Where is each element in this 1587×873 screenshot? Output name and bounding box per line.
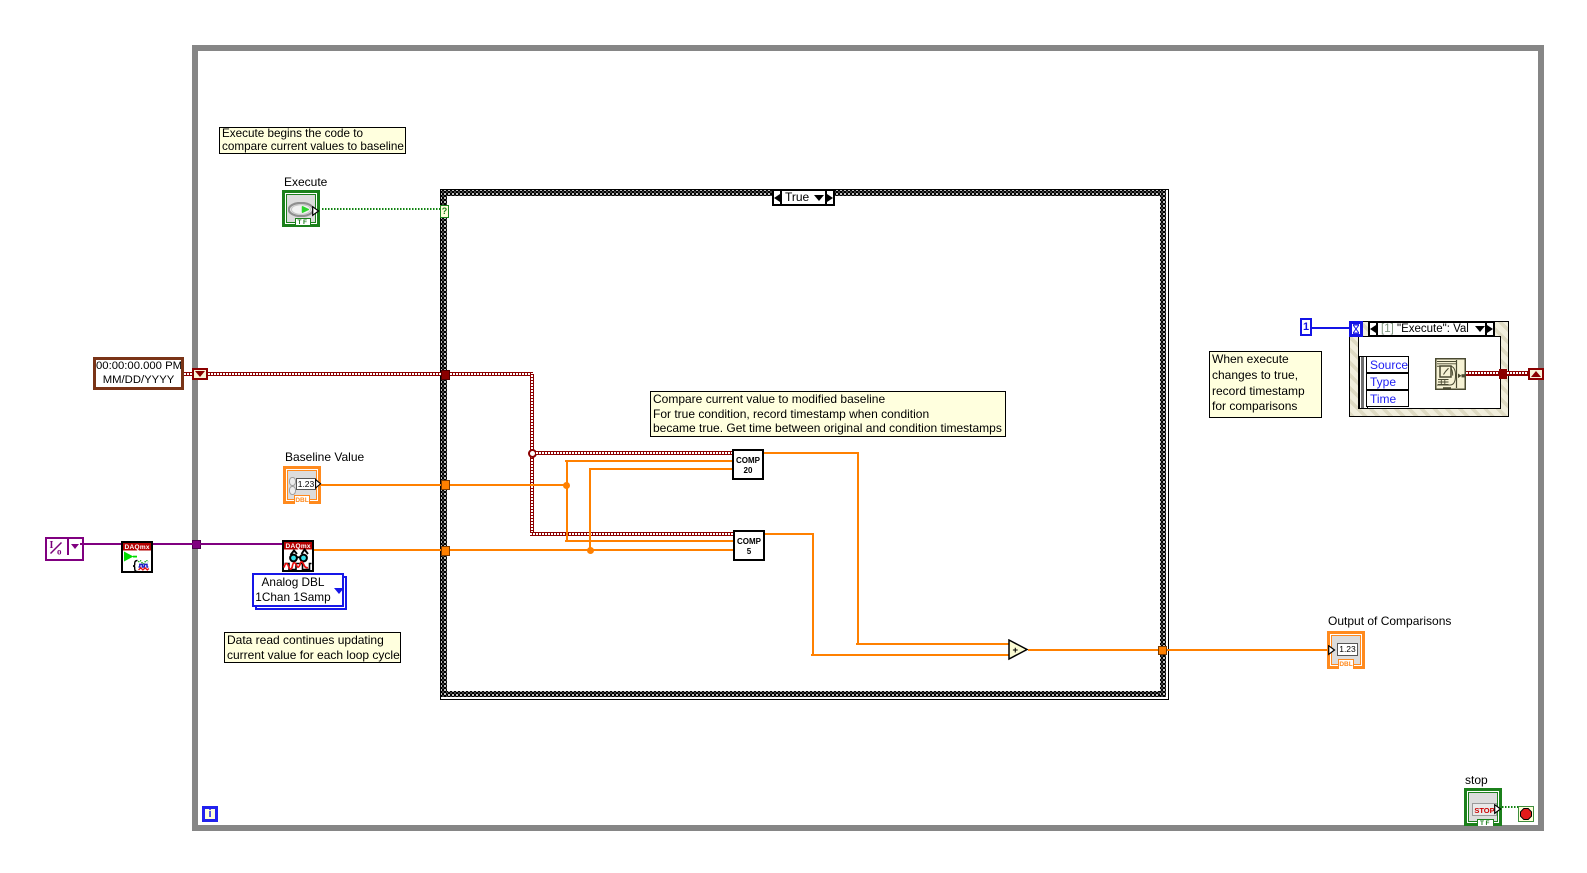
maroon junction circle [528,449,537,458]
current vertical up [589,469,591,549]
COMP20 output wire [764,452,858,454]
current value junction dot [587,547,594,554]
event structure frame [1349,321,1509,417]
maroon branch to COMP 20 [536,451,732,455]
event data: Time [1366,390,1409,407]
label Baseline Value [285,450,364,464]
purple wire to DAQmx read [153,543,282,545]
current value wire inside [450,549,733,551]
right shift register [1528,368,1544,380]
iteration terminal i [202,806,218,822]
event selector [1368,321,1495,337]
maroon wire from icon to event tunnel [1466,371,1499,376]
baseline value numeric control [283,466,321,504]
case selector True [772,189,835,206]
timestamp constant [93,357,184,390]
svg-text:DAQmx: DAQmx [125,544,150,551]
while loop border right [1538,45,1544,831]
maroon bottom branch to COMP 5 [530,532,733,536]
blue constant 1 [1300,318,1312,336]
orange tunnel output [1158,646,1167,655]
loop condition terminal [1518,806,1534,822]
event timeout hourglass terminal [1349,321,1363,337]
wire baseline to case [321,484,441,486]
purple tunnel on loop border [192,540,201,549]
COMP 5 subVI [733,530,765,561]
I/O constant [45,537,84,561]
DAQmx read icon [282,540,314,572]
while loop border left [192,45,198,831]
current to COMP20 [589,468,732,470]
purple wire I/O to DAQmx start [80,543,121,545]
orange tunnel current value [441,546,450,556]
COMP 20 subVI [732,449,764,480]
baseline to COMP5 [565,540,733,542]
comment: when execute changes [1209,351,1322,418]
left shift register [192,368,208,380]
baseline vertical up [566,461,568,484]
baseline vertical down [566,486,568,542]
event data: Source [1366,356,1409,373]
case structure frame [440,189,1169,700]
event structure inner area [1358,336,1501,409]
baseline junction dot [563,482,570,489]
execute boolean control [282,190,320,227]
label Execute [284,175,327,189]
svg-text:o: o [57,547,62,556]
baseline to COMP20 [565,460,732,462]
maroon tunnel on case border [441,370,450,380]
wire left SR to case tunnel (timestamp) [208,372,441,376]
maroon tunnel on event border [1499,369,1507,379]
while loop border top [192,45,1544,51]
orange tunnel baseline [441,480,450,490]
event data node [1359,356,1368,409]
wire baseline inside [450,484,566,486]
blue wire to event structure [1311,327,1349,329]
Analog DBL dropdown shadow [255,576,347,610]
comment: compare current value [650,391,1006,437]
add output wire [1028,649,1158,651]
stop wire dotted green [1502,806,1518,808]
comment: data read continues [224,632,401,663]
event data: Type [1366,373,1409,390]
wire tunnel to indicator [1167,649,1330,651]
DAQmx start task icon [121,541,153,573]
svg-text:+: + [1013,645,1019,656]
svg-text:I: I [50,540,54,551]
case ? terminal [440,205,449,218]
label stop [1465,773,1488,787]
maroon wire inside case horizontal [450,372,533,376]
wire read to case (current value) [314,549,441,551]
output of comparisons indicator [1327,631,1365,669]
while loop border bottom [192,825,1544,831]
comment: execute begins [219,127,406,154]
COMP5 output wire [765,533,813,535]
get date/time icon [1435,358,1466,390]
maroon wire tunnel to right SR [1507,371,1528,376]
Analog DBL dropdown [252,573,344,607]
svg-text:DAQmx: DAQmx [286,543,311,550]
maroon wire vertical [530,374,534,536]
wire timestamp to left shift register [184,372,192,376]
wire execute to case (green dotted) [322,208,440,210]
add function [1008,639,1030,661]
stop boolean control [1464,788,1502,826]
label Output of Comparisons [1328,614,1451,628]
